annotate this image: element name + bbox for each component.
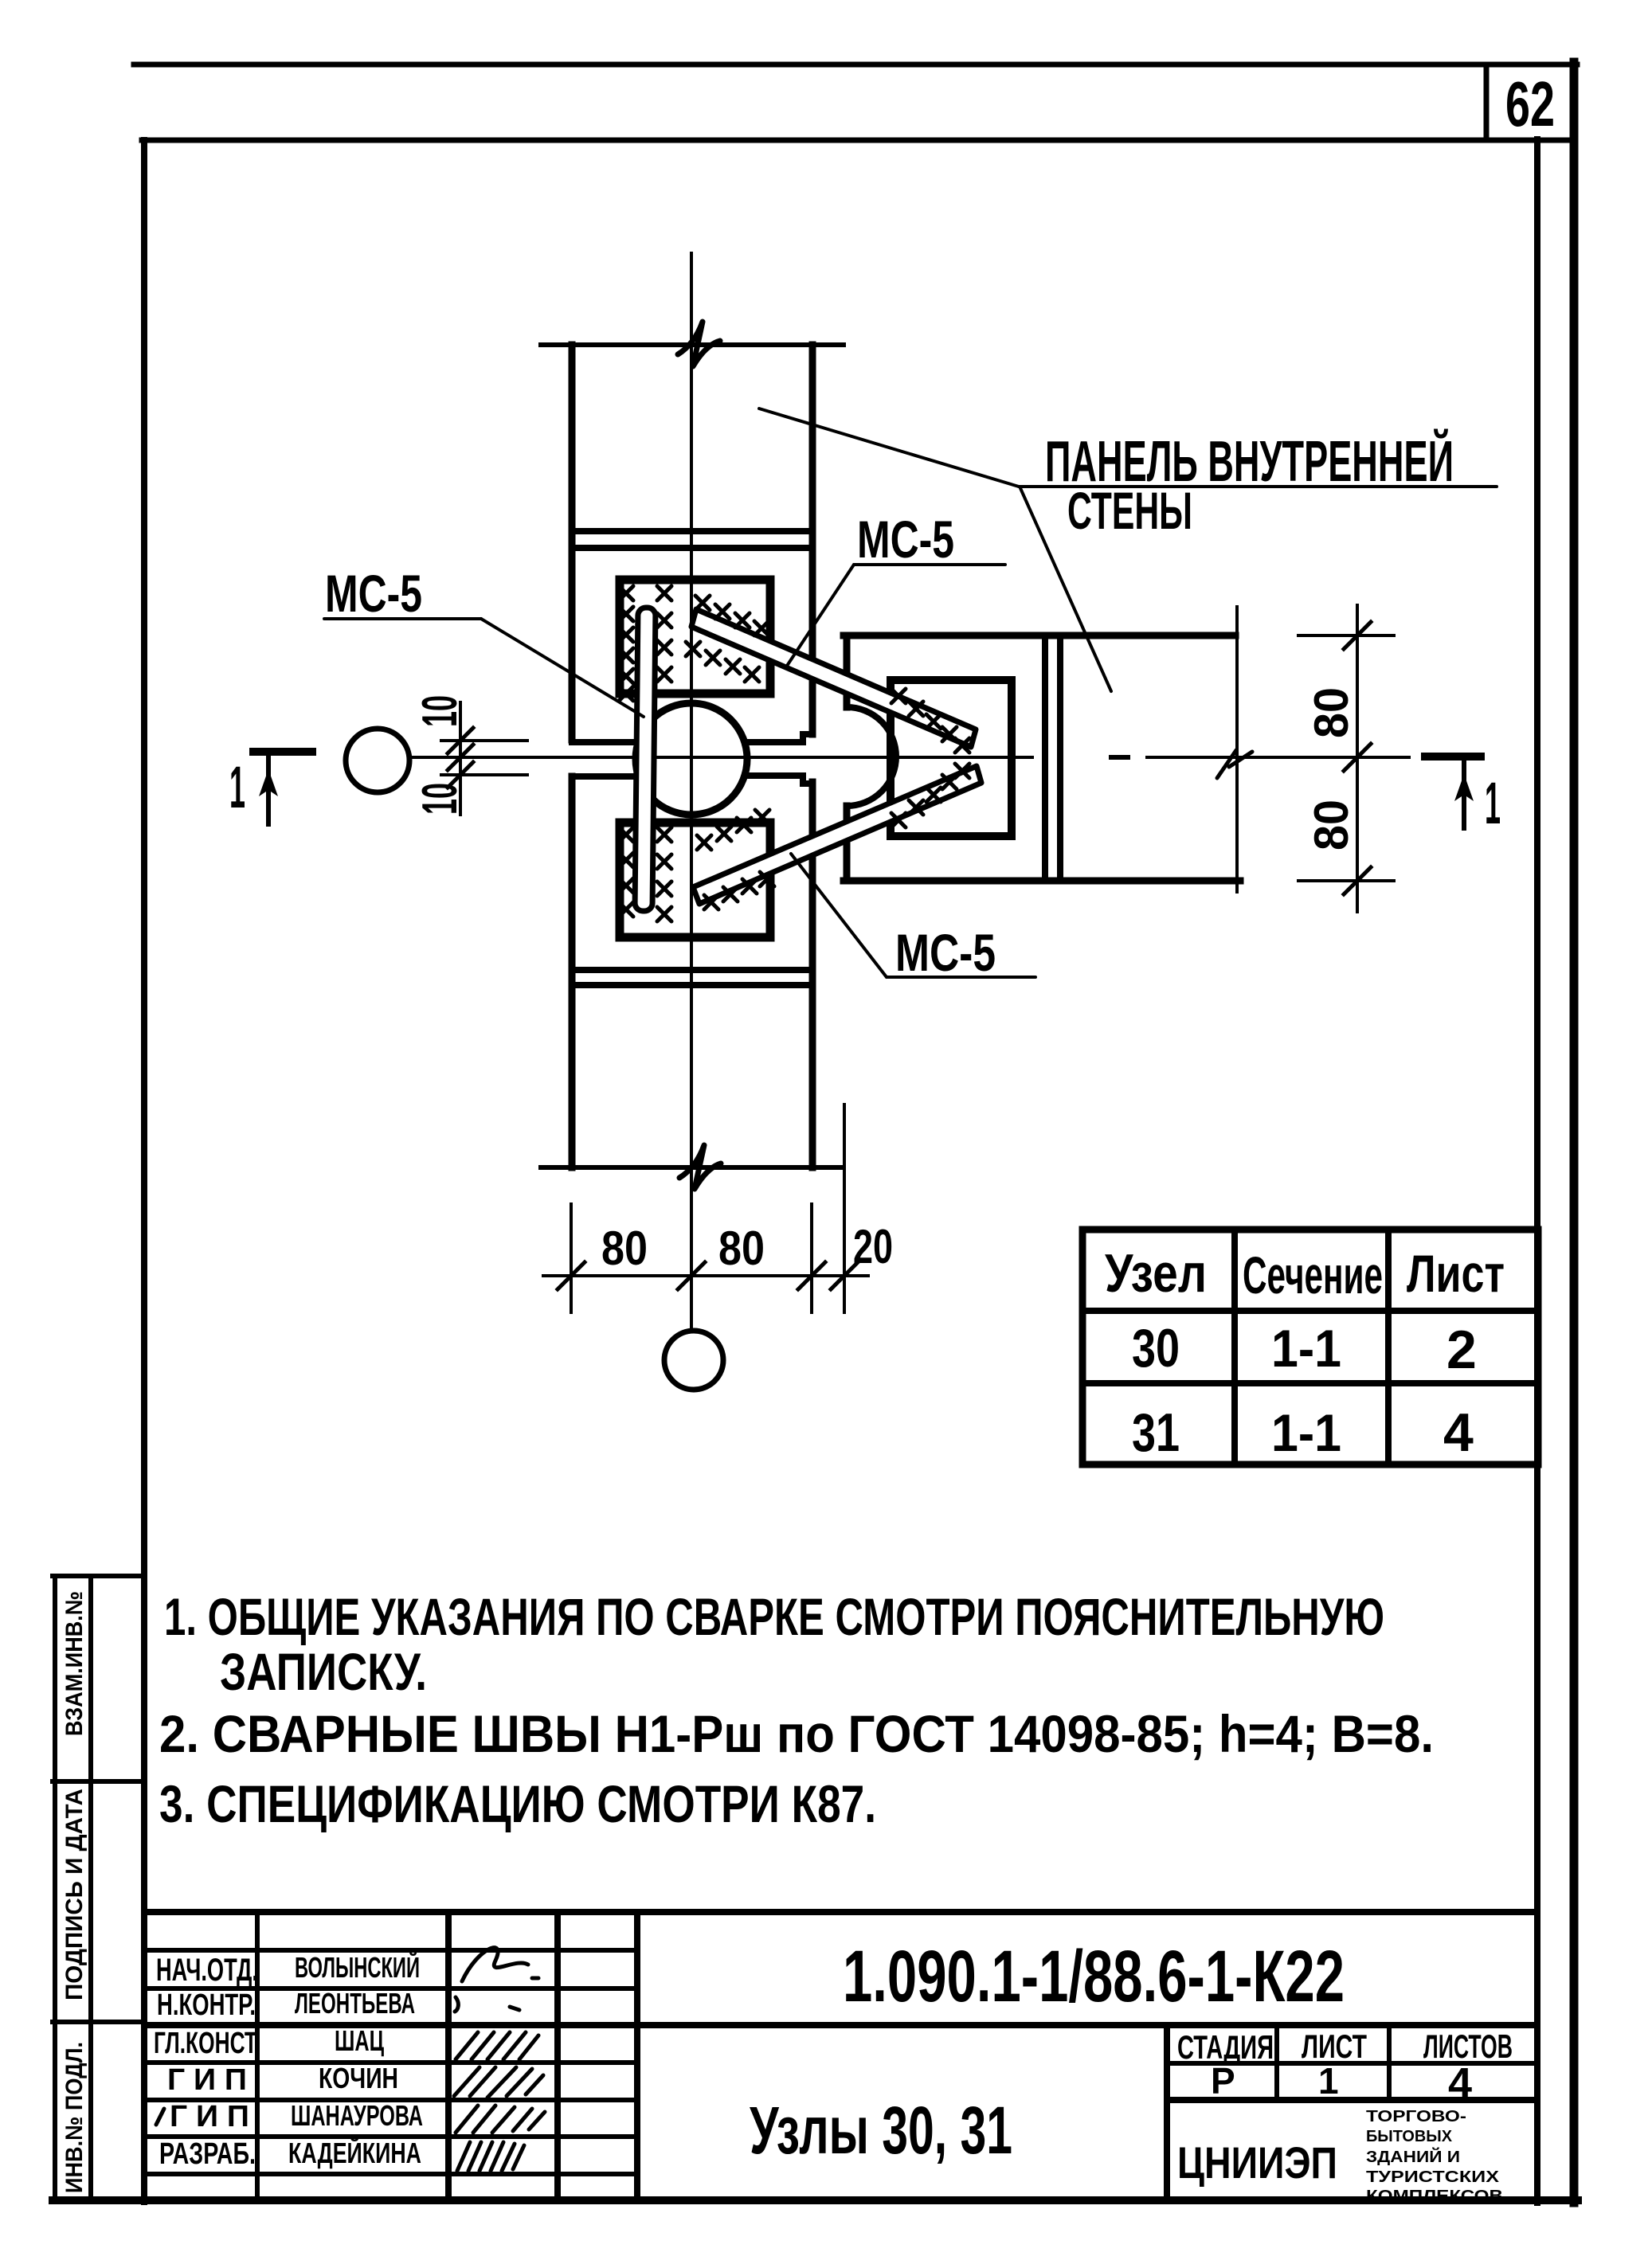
- svg-text:1-1: 1-1: [1271, 1319, 1341, 1378]
- svg-text:Г И П: Г И П: [170, 2100, 249, 2133]
- svg-text:Н.КОНТР.: Н.КОНТР.: [157, 1988, 256, 2022]
- svg-text:ЗДАНИЙ И: ЗДАНИЙ И: [1366, 2147, 1460, 2166]
- svg-text:1: 1: [1318, 2060, 1339, 2102]
- svg-text:Сечение: Сечение: [1243, 1245, 1383, 1304]
- svg-text:4: 4: [1443, 1402, 1474, 1463]
- svg-text:ТУРИСТСКИХ: ТУРИСТСКИХ: [1366, 2168, 1500, 2186]
- svg-text:РАЗРАБ.: РАЗРАБ.: [159, 2137, 256, 2171]
- svg-text:БЫТОВЫХ: БЫТОВЫХ: [1366, 2128, 1453, 2145]
- svg-text:31: 31: [1132, 1402, 1180, 1463]
- svg-text:НАЧ.ОТД.: НАЧ.ОТД.: [156, 1953, 258, 1988]
- svg-text:ЛИСТ: ЛИСТ: [1302, 2028, 1367, 2065]
- svg-text:Лист: Лист: [1407, 1244, 1505, 1303]
- svg-text:2: 2: [1446, 1320, 1477, 1380]
- svg-text:Г И П: Г И П: [167, 2063, 247, 2097]
- svg-text:10: 10: [413, 783, 468, 815]
- svg-text:80: 80: [1305, 800, 1358, 850]
- svg-text:МС-5: МС-5: [895, 923, 996, 982]
- svg-text:ВОЛЫНСКИЙ: ВОЛЫНСКИЙ: [295, 1950, 420, 1984]
- svg-text:ШАЦ: ШАЦ: [335, 2024, 384, 2057]
- svg-text:1.090.1-1/88.6-1-К22: 1.090.1-1/88.6-1-К22: [843, 1936, 1345, 2017]
- svg-text:КОЧИН: КОЧИН: [319, 2062, 398, 2094]
- svg-text:80: 80: [601, 1222, 648, 1275]
- svg-text:ЗАПИСКУ.: ЗАПИСКУ.: [220, 1642, 427, 1701]
- svg-text:30: 30: [1132, 1318, 1180, 1378]
- svg-text:3. СПЕЦИФИКАЦИЮ СМОТРИ К87.: 3. СПЕЦИФИКАЦИЮ СМОТРИ К87.: [159, 1774, 876, 1833]
- svg-text:10: 10: [413, 695, 468, 727]
- svg-text:ТОРГОВО-: ТОРГОВО-: [1366, 2108, 1466, 2125]
- svg-text:1. ОБЩИЕ УКАЗАНИЯ ПО СВАРКЕ СМ: 1. ОБЩИЕ УКАЗАНИЯ ПО СВАРКЕ СМОТРИ ПОЯСН…: [164, 1587, 1384, 1646]
- svg-text:ИНВ.№ ПОДЛ.: ИНВ.№ ПОДЛ.: [61, 2042, 88, 2193]
- svg-text:КАДЕЙКИНА: КАДЕЙКИНА: [288, 2136, 421, 2169]
- svg-text:ШАНАУРОВА: ШАНАУРОВА: [291, 2099, 423, 2132]
- svg-text:МС-5: МС-5: [325, 564, 422, 623]
- svg-text:ГЛ.КОНСТ: ГЛ.КОНСТ: [154, 2027, 257, 2060]
- svg-text:1-1: 1-1: [1271, 1403, 1341, 1462]
- svg-text:62: 62: [1505, 68, 1555, 139]
- svg-text:ЛЕОНТЬЕВА: ЛЕОНТЬЕВА: [295, 1987, 415, 2020]
- svg-text:Узел: Узел: [1105, 1243, 1207, 1304]
- svg-text:КОМПЛЕКСОВ: КОМПЛЕКСОВ: [1366, 2188, 1503, 2205]
- svg-text:80: 80: [1305, 687, 1358, 738]
- svg-text:1: 1: [1485, 770, 1501, 836]
- svg-text:2. СВАРНЫЕ ШВЫ Н1-Рш по ГОСТ 1: 2. СВАРНЫЕ ШВЫ Н1-Рш по ГОСТ 14098-85; h…: [159, 1704, 1434, 1763]
- svg-text:ПОДПИСЬ И ДАТА: ПОДПИСЬ И ДАТА: [61, 1789, 88, 2000]
- svg-text:Узлы 30, 31: Узлы 30, 31: [750, 2093, 1012, 2168]
- svg-text:СТЕНЫ: СТЕНЫ: [1067, 481, 1192, 540]
- svg-text:Р: Р: [1211, 2060, 1235, 2102]
- svg-text:4: 4: [1448, 2059, 1472, 2107]
- svg-text:1: 1: [229, 754, 245, 820]
- svg-text:80: 80: [718, 1222, 765, 1275]
- svg-text:ВЗАМ.ИНВ.№: ВЗАМ.ИНВ.№: [61, 1591, 88, 1736]
- svg-text:20: 20: [853, 1220, 893, 1273]
- svg-text:МС-5: МС-5: [857, 510, 954, 569]
- svg-text:ЦНИИЭП: ЦНИИЭП: [1177, 2137, 1337, 2188]
